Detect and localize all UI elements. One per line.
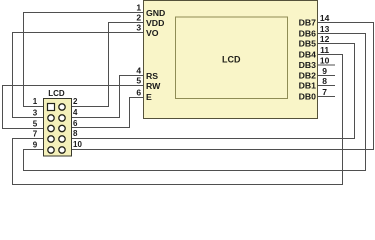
wire DB6 to connector pin 9 [23,149,48,151]
svg-text:4: 4 [73,108,78,117]
pin 14 DB7 stub [318,22,375,24]
connector pad 8 [59,136,65,142]
wire DB5 vertical [354,43,356,139]
svg-text:5: 5 [33,120,38,129]
svg-text:VDD: VDD [146,18,164,28]
connector pad 4 [59,115,65,121]
wire DB6 bottom run [23,170,366,172]
connector pad 7 [48,136,54,142]
svg-text:DB2: DB2 [299,71,317,81]
svg-text:11: 11 [320,45,329,55]
pin 13 DB6 stub [318,33,367,35]
wire DB4 to connector pin 7 [12,138,48,140]
pin 11 DB4 stub [318,54,344,56]
svg-text:LCD: LCD [48,89,65,98]
svg-text:3: 3 [33,109,38,118]
connector pad 5 [48,125,54,131]
svg-text:RS: RS [146,71,158,81]
svg-text:5: 5 [136,76,141,86]
svg-text:GND: GND [146,8,165,18]
svg-text:RW: RW [146,81,161,91]
wire DB6 vertical [365,33,367,171]
svg-text:2: 2 [73,97,78,106]
pin 10 DB3 stub (not connected) [318,64,336,66]
wire RW vertical [2,85,4,129]
wire RS vertical [119,75,121,118]
svg-text:14: 14 [320,13,330,23]
wire VDD to connector pin 2 [66,106,110,108]
svg-text:7: 7 [322,87,327,97]
svg-text:6: 6 [73,119,78,128]
pin 3 VO stub [12,32,144,34]
pin 12 DB5 stub [318,43,356,45]
LCD module U1 body [144,1,318,119]
pin 7 DB0 stub (not connected) [318,96,336,98]
svg-text:9: 9 [33,141,38,150]
wire VO vertical [12,32,14,118]
LCD display area (inner rectangle) [176,17,288,99]
wire RS to connector pin 4 [66,117,121,119]
connector pad 1 (square) [48,104,55,111]
svg-text:4: 4 [136,66,141,76]
wire DB5 to connector pin 8 [66,138,356,140]
svg-text:7: 7 [33,130,38,139]
wire E vertical [129,97,131,128]
wire DB4 bottom run [12,184,343,186]
svg-text:DB6: DB6 [299,29,317,39]
wire DB6 left vertical up [23,149,25,171]
pin 4 RS stub [119,75,144,77]
svg-text:6: 6 [136,88,141,98]
connector pad 6 [59,125,65,131]
pin 1 GND stub [23,12,144,14]
wire DB4 vertical [342,54,344,185]
svg-text:DB7: DB7 [299,18,317,28]
pin 2 VDD stub [108,22,144,24]
svg-text:1: 1 [33,97,38,106]
wire RW to connector pin 5 [2,128,48,130]
pin 5 RW stub [2,85,144,87]
svg-text:10: 10 [73,140,82,149]
svg-text:8: 8 [73,129,78,138]
connector pad 3 [48,115,54,121]
svg-text:1: 1 [136,3,141,13]
connector J1 body [44,99,72,157]
svg-text:DB0: DB0 [299,92,317,102]
wire GND to connector pin 1 [23,106,48,108]
wire DB7 vertical [373,22,375,150]
wire GND vertical [23,12,25,107]
svg-text:2: 2 [136,13,141,23]
svg-text:DB4: DB4 [299,50,317,60]
connector pad 9 [48,147,54,153]
wire VO to connector pin 3 [12,117,48,119]
wire E to connector pin 6 [66,127,131,129]
svg-text:LCD: LCD [222,55,241,65]
pin 8 DB1 stub (not connected) [318,85,336,87]
connector pad 2 [59,104,65,110]
wire DB4 left vertical up [12,138,14,185]
svg-text:12: 12 [320,34,330,44]
svg-text:E: E [146,92,152,102]
pin 9 DB2 stub (not connected) [318,75,336,77]
svg-text:13: 13 [320,24,330,34]
svg-text:9: 9 [322,66,327,76]
svg-text:DB3: DB3 [299,60,317,70]
svg-text:DB1: DB1 [299,81,317,91]
wire VDD vertical [108,22,110,107]
svg-text:3: 3 [136,23,141,33]
svg-text:VO: VO [146,28,159,38]
svg-text:DB5: DB5 [299,39,317,49]
pin 6 E stub [129,97,144,99]
svg-text:10: 10 [320,56,330,66]
wire DB7 to connector pin 10 [66,149,375,151]
svg-text:8: 8 [322,76,327,86]
connector pad 10 [59,147,65,153]
